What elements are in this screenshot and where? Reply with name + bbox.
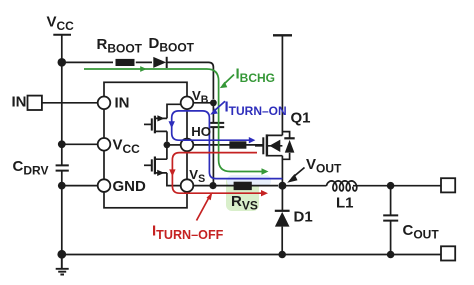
wire L1 to COUT node — [353, 185, 441, 187]
svg-text:VCC: VCC — [47, 14, 75, 34]
pin HO — [181, 139, 194, 152]
capacitor CDRV — [56, 165, 69, 170]
diode D1 — [275, 211, 290, 227]
node HO internal — [164, 142, 171, 149]
terminal OUT top — [441, 178, 455, 192]
wire VB node down to CBOOT — [212, 103, 214, 123]
wire Q1 source to VOUT — [281, 156, 283, 186]
highlight behind RVS — [226, 176, 259, 211]
current path ITURNOFF — [169, 153, 268, 221]
wire VCC pin — [62, 143, 98, 145]
transistor Q1 — [255, 132, 295, 160]
resistor RBOOT — [116, 59, 135, 66]
current path ITURNON — [169, 101, 283, 178]
leader ITURNOFF — [197, 197, 210, 221]
wire RBOOT to DBOOT — [136, 61, 152, 63]
pin VCC — [98, 138, 111, 151]
wire IN — [42, 102, 98, 104]
wire VCC stem — [61, 35, 63, 63]
svg-text:ITURN–OFF: ITURN–OFF — [152, 223, 224, 243]
wire VOUT to L1 — [282, 185, 326, 187]
pin IN — [98, 97, 111, 110]
pin GND — [98, 179, 111, 192]
terminal OUT bottom — [441, 246, 455, 260]
highlight blue band — [227, 175, 271, 187]
svg-text:COUT: COUT — [403, 222, 440, 242]
inductor L1 — [326, 181, 356, 191]
transistor M2 driver low — [144, 145, 181, 186]
svg-text:D1: D1 — [294, 209, 313, 226]
wire HO internal tee — [167, 144, 181, 146]
svg-text:DBOOT: DBOOT — [149, 35, 195, 55]
wire HO to gate — [193, 144, 263, 146]
wire COUT lower — [390, 221, 392, 255]
diode DBOOT — [153, 57, 166, 68]
leader IBCHG — [223, 75, 234, 86]
wire VB pin to node — [193, 102, 213, 104]
wire left rail upper — [61, 62, 63, 165]
wire GND pin — [62, 185, 98, 187]
svg-text:VCC: VCC — [113, 137, 141, 157]
node VB — [210, 99, 217, 106]
wire left rail lower — [61, 171, 63, 255]
svg-text:RBOOT: RBOOT — [97, 36, 143, 56]
node D1 bottom — [278, 251, 286, 259]
wire Q1 drain — [281, 35, 283, 135]
transistor M1 driver high — [144, 104, 182, 141]
svg-text:ITURN–ON: ITURN–ON — [225, 99, 287, 119]
resistor Rgate — [229, 141, 246, 148]
svg-text:Q1: Q1 — [291, 110, 311, 127]
power rail HV top — [273, 34, 292, 36]
node ground rail junction — [57, 250, 66, 259]
node COUT — [387, 182, 395, 190]
wire DBOOT to VB corner — [167, 62, 213, 99]
node VCC pin tee — [58, 140, 66, 148]
svg-text:CDRV: CDRV — [13, 158, 49, 178]
node GND pin tee — [58, 182, 66, 190]
svg-text:IN: IN — [12, 94, 27, 111]
wire VS to VOUT — [193, 185, 278, 187]
node COUT bottom — [387, 251, 395, 259]
ground — [56, 255, 69, 275]
svg-text:L1: L1 — [336, 195, 354, 212]
svg-text:GND: GND — [113, 178, 147, 195]
wire D1 lower — [281, 227, 283, 255]
wire top from VCC to RBOOT — [62, 61, 113, 63]
wire ground rail — [62, 254, 441, 256]
arrow VOUT pointer — [287, 168, 304, 183]
wire CBOOT to VS node — [212, 127, 214, 185]
svg-text:IBCHG: IBCHG — [236, 66, 276, 86]
pin VB — [181, 97, 194, 110]
wire COUT upper — [390, 186, 392, 215]
resistor RVS — [234, 182, 252, 190]
terminal IN square — [28, 96, 42, 110]
leader ITURNON — [214, 101, 226, 111]
node VOUT — [278, 182, 286, 190]
power rail VCC — [53, 34, 71, 36]
node VS — [209, 182, 216, 189]
IC gate driver body — [104, 82, 187, 208]
svg-text:HO: HO — [191, 124, 211, 139]
wire D1 upper — [281, 186, 283, 211]
capacitor COUT — [383, 215, 398, 220]
pin VS — [181, 179, 194, 192]
svg-text:IN: IN — [115, 95, 130, 112]
svg-text:VOUT: VOUT — [306, 156, 342, 176]
node VCC junction — [58, 58, 67, 67]
current path IBCHG — [84, 66, 269, 175]
capacitor CBOOT — [210, 123, 224, 127]
